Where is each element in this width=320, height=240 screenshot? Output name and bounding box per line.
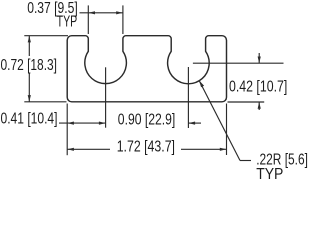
dimension line 0.90 right tail [188,122,201,124]
dimension tail 0.42 bottom arrow [258,102,260,110]
slot 2 centerline horizontal [193,62,284,64]
dimension line 1.72 right segment [181,148,227,150]
arrowhead 0.41 right [99,122,106,125]
svg-text:0.42 [10.7]: 0.42 [10.7] [229,79,287,96]
dimension line 1.72 left segment [67,148,110,150]
arrowhead 0.42 bottom pointing up [258,102,261,109]
arrowhead leader .22R [199,80,204,87]
arrowhead 0.42 top pointing down [258,57,261,64]
arrowhead 0.72 up [28,36,31,43]
leader line .22R diagonal [199,80,240,160]
dimension line 0.72 lower segment [28,73,30,102]
part outline with two keyhole slots [67,36,226,102]
extension line 0.42 bottom [228,101,265,103]
svg-text:TYP: TYP [256,166,283,180]
arrowhead 0.72 down [28,95,31,102]
extension line left edge down [66,104,68,156]
leader line .22R horizontal [240,160,251,162]
dimension line 0.72 upper segment [28,36,30,56]
arrowhead 0.41 left [67,122,74,125]
svg-text:0.41 [10.4]: 0.41 [10.4] [1,110,58,127]
extension line 0.37 left [87,5,89,34]
svg-text:0.72 [18.3]: 0.72 [18.3] [1,57,58,74]
extension line 0.72 bottom [24,101,66,103]
arrowhead 0.37 left [88,11,95,14]
arrowhead 1.72 right [220,148,227,151]
extension line 0.72 top [24,35,68,37]
extension line 0.37 right [122,5,124,34]
dimension line 0.41 [59,122,106,124]
arrowhead 1.72 left [67,148,74,151]
arrowhead 0.37 right [116,11,123,14]
dimension tail 0.42 top arrow [258,53,260,63]
arrowhead 0.90 right outside [188,122,195,125]
extension line right edge down [226,104,228,156]
slot 1 centerline [105,67,107,127]
svg-text:0.90 [22.9]: 0.90 [22.9] [118,112,176,129]
svg-text:TYP: TYP [57,14,78,31]
svg-text:1.72 [43.7]: 1.72 [43.7] [117,138,175,155]
dimension line 0.37 [80,12,123,14]
slot 2 centerline vertical [187,67,189,128]
